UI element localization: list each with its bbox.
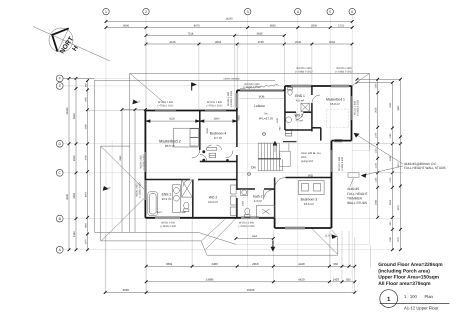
grid line 3 vertical bbox=[247, 15, 249, 268]
roof outline bottom-right fascia bbox=[236, 243, 369, 245]
exterior wall corner-window north bbox=[237, 89, 285, 91]
top overall dimension 14260 bbox=[106, 21, 352, 23]
svg-text:4: 4 bbox=[297, 10, 299, 14]
roof hip bottom-right 45 bbox=[311, 228, 337, 254]
basin WD2 upper bbox=[286, 117, 292, 123]
grid bubble B bbox=[56, 215, 63, 222]
leader trimmer bbox=[350, 179, 354, 187]
svg-text:2510: 2510 bbox=[156, 211, 162, 214]
grid line D horizontal bbox=[64, 143, 353, 145]
roof hip bottom-left 45 bbox=[101, 197, 145, 241]
shower ENS2 bbox=[182, 180, 193, 197]
svg-text:3830: 3830 bbox=[270, 24, 277, 27]
grid bubble D bbox=[56, 140, 63, 147]
closet double doors bbox=[207, 145, 212, 150]
exterior wall jog bath2 bbox=[274, 218, 276, 228]
interior wall ENS1 west bbox=[284, 90, 286, 130]
title marker line bbox=[380, 303, 450, 305]
exterior wall south ENS2/WD2 bbox=[145, 217, 274, 219]
roof right edge return bbox=[353, 150, 370, 152]
svg-text:1720: 1720 bbox=[338, 24, 345, 27]
grid line 4 vertical bbox=[297, 15, 299, 268]
svg-text:6: 6 bbox=[351, 10, 353, 14]
svg-text:4135: 4135 bbox=[169, 118, 175, 121]
grid line 2 vertical bbox=[145, 15, 147, 293]
roof gutter step diagonal bbox=[201, 241, 207, 255]
roof outline right edge upper bbox=[368, 73, 370, 150]
svg-text:W05: W05 bbox=[301, 156, 307, 159]
exterior wall south Bedroom3 bbox=[275, 227, 332, 229]
svg-text:20.5 m²: 20.5 m² bbox=[165, 144, 175, 148]
bed Masterbed2 bbox=[174, 128, 200, 147]
shower ENS1 bbox=[301, 103, 309, 111]
interior wall landing bbox=[312, 127, 321, 129]
right dim chain 2 bbox=[391, 82, 393, 249]
svg-text:1180: 1180 bbox=[389, 133, 392, 139]
grid line A horizontal bbox=[64, 249, 402, 251]
door ENS2 bbox=[183, 180, 190, 187]
svg-text:Plan: Plan bbox=[425, 294, 434, 299]
svg-text:3090: 3090 bbox=[123, 288, 130, 292]
interior wall hall west bbox=[236, 111, 238, 148]
grid line F horizontal bbox=[64, 77, 131, 79]
top dimension row grid spacings bbox=[106, 27, 352, 29]
svg-text:1120: 1120 bbox=[375, 148, 378, 154]
left dim chain outer bbox=[68, 78, 70, 249]
svg-text:Masterbed 1: Masterbed 1 bbox=[326, 97, 345, 101]
svg-text:Bedroom 3: Bedroom 3 bbox=[301, 198, 318, 202]
svg-text:1130: 1130 bbox=[375, 162, 378, 168]
svg-text:FFL=27.07: FFL=27.07 bbox=[259, 116, 274, 120]
grid bubble 2 bbox=[143, 8, 149, 14]
roof hip at step to wall bbox=[202, 220, 225, 241]
svg-text:2850: 2850 bbox=[252, 262, 259, 266]
svg-text:4.0 m²: 4.0 m² bbox=[296, 99, 304, 103]
shower bath2 bbox=[257, 205, 275, 217]
exterior wall jog at grid3 bbox=[236, 90, 238, 110]
roof gutter bottom-left edge bbox=[101, 240, 201, 242]
door ENS1 bbox=[296, 112, 303, 119]
roof gutter right corner bbox=[337, 237, 339, 256]
interior dim 2800 bbox=[200, 120, 236, 122]
svg-text:VDB: VDB bbox=[259, 95, 265, 99]
grid line 5 vertical bbox=[329, 15, 331, 284]
smoke detector hall lower bbox=[247, 172, 250, 175]
svg-text:4420: 4420 bbox=[298, 277, 305, 281]
north arrow hypotenuse bbox=[58, 28, 69, 51]
svg-text:10.9 m²: 10.9 m² bbox=[162, 197, 172, 201]
svg-text:FULL HEIGHT: FULL HEIGHT bbox=[347, 192, 368, 196]
svg-text:1340: 1340 bbox=[389, 236, 392, 242]
roof hip top-right bbox=[352, 73, 370, 86]
exterior wall top Masterbed2/Bedroom4 bbox=[145, 110, 237, 112]
window W1206 top wall right bbox=[205, 109, 226, 112]
corner window glazing bbox=[240, 89, 283, 92]
svg-text:Upper Floor Area=150sqm: Upper Floor Area=150sqm bbox=[378, 275, 439, 281]
svg-text:4450: 4450 bbox=[397, 105, 400, 111]
svg-text:(+300) 0 800: (+300) 0 800 bbox=[341, 157, 344, 171]
svg-text:15.8 m²: 15.8 m² bbox=[330, 102, 340, 106]
svg-text:2: 2 bbox=[145, 10, 147, 14]
svg-text:1140: 1140 bbox=[375, 177, 378, 183]
grid line 1 vertical bbox=[105, 15, 107, 293]
interior wall WD2upper south bbox=[285, 129, 312, 131]
top dim extension lines bbox=[145, 29, 147, 111]
svg-text:1375: 1375 bbox=[375, 132, 378, 138]
left dim chain middle bbox=[75, 78, 77, 249]
svg-text:3: 3 bbox=[247, 10, 249, 14]
svg-text:5620: 5620 bbox=[73, 113, 76, 119]
stair upper flight treads bbox=[257, 143, 259, 159]
svg-text:2800: 2800 bbox=[214, 118, 220, 121]
svg-text:3130: 3130 bbox=[206, 128, 209, 134]
svg-text:(+1500) 0 900: (+1500) 0 900 bbox=[139, 182, 142, 198]
svg-text:2780: 2780 bbox=[84, 154, 87, 160]
interior wall Masterbed2 south bbox=[145, 179, 190, 181]
svg-text:Riser 188 BL 16+: Riser 188 BL 16+ bbox=[301, 152, 322, 155]
right dim chain 3 bbox=[399, 79, 401, 250]
svg-text:FULL HEIGHT WALL STUDS: FULL HEIGHT WALL STUDS bbox=[404, 166, 446, 170]
roof outline lower-left top edge bbox=[95, 79, 276, 81]
svg-text:3604: 3604 bbox=[166, 262, 173, 266]
eave offset dim bbox=[122, 109, 145, 111]
svg-text:3815: 3815 bbox=[256, 32, 263, 35]
svg-text:1060: 1060 bbox=[375, 83, 378, 89]
svg-text:950: 950 bbox=[333, 262, 338, 266]
svg-text:(+1500) 0 900: (+1500) 0 900 bbox=[239, 225, 256, 228]
window W204 west wall lower bbox=[144, 180, 147, 200]
svg-text:Masterbed 2: Masterbed 2 bbox=[159, 138, 181, 143]
window W203 south wall bbox=[155, 217, 180, 220]
grid bubble F bbox=[56, 75, 63, 82]
top dimension row 7118/3815 bbox=[146, 35, 284, 37]
grid bubble E bbox=[56, 83, 63, 90]
svg-text:10045: 10045 bbox=[66, 107, 69, 115]
extension west wall top bbox=[89, 110, 146, 112]
svg-text:2375: 2375 bbox=[397, 204, 400, 210]
window W1211 east wall Masterbed1 bbox=[350, 96, 353, 120]
grid line E horizontal bbox=[64, 85, 286, 87]
svg-text:(including Porch area): (including Porch area) bbox=[378, 268, 430, 274]
svg-text:2040: 2040 bbox=[295, 41, 302, 44]
stair landing bbox=[279, 151, 290, 166]
interior wall Masterbed2/Bedroom4 bbox=[199, 111, 201, 151]
grid line 6 vertical bbox=[351, 15, 353, 293]
exterior wall jog ENS1 bbox=[284, 86, 286, 90]
interior wall bath2 north bbox=[237, 188, 255, 190]
svg-text:5: 5 bbox=[329, 10, 331, 14]
stair lower flight treads bbox=[257, 159, 259, 171]
svg-text:d140x45@300mm C/C: d140x45@300mm C/C bbox=[404, 162, 437, 166]
grid bubble 1 bbox=[103, 8, 109, 14]
door Bedroom3 bbox=[275, 178, 285, 188]
closet Bedroom4 bbox=[207, 148, 217, 151]
vanity ENS2 bbox=[173, 185, 181, 213]
svg-text:1300: 1300 bbox=[242, 200, 245, 206]
top dimension row 4135/2804/3735/2040/3004 bbox=[146, 43, 352, 45]
left dim chain inner bbox=[87, 81, 89, 250]
svg-text:4060: 4060 bbox=[238, 115, 241, 121]
bed Masterbed1 dashed bbox=[327, 109, 349, 128]
interior wall ENS2/WD2 divider bbox=[192, 180, 194, 218]
svg-text:14085: 14085 bbox=[206, 277, 214, 281]
bottom dim row 3 bbox=[105, 292, 355, 294]
svg-text:Ground Floor Area=228sqm: Ground Floor Area=228sqm bbox=[378, 262, 443, 268]
svg-text:bath 2: bath 2 bbox=[253, 194, 263, 198]
window W1202 hall west wall bbox=[236, 93, 239, 108]
svg-text:16290: 16290 bbox=[247, 288, 255, 292]
trimmer stud highlight 2 bbox=[348, 173, 359, 177]
stair east thin line bbox=[288, 143, 290, 151]
svg-text:3320: 3320 bbox=[389, 102, 392, 108]
title marker circle bbox=[380, 290, 398, 308]
north arrow chevron bbox=[52, 28, 69, 51]
svg-text:4555: 4555 bbox=[84, 191, 87, 197]
grid bubble 3 bbox=[245, 8, 251, 14]
svg-text:Leisure: Leisure bbox=[254, 104, 265, 108]
exterior wall west bbox=[144, 111, 146, 218]
window W1206 Masterbed1 bbox=[331, 85, 349, 88]
svg-text:(+1500) 0 900: (+1500) 0 900 bbox=[160, 225, 177, 228]
bottom dim row 1 bbox=[146, 265, 355, 267]
roof hip from south wall corner bbox=[206, 219, 237, 250]
grid row ticks on right chains bbox=[353, 143, 404, 145]
cabinets WD2 upper bbox=[286, 131, 292, 134]
roof ridge vertical at step bbox=[129, 73, 131, 232]
svg-text:lin: lin bbox=[265, 112, 268, 116]
revision cloud corner window bbox=[240, 85, 279, 90]
exterior wall south Masterbed1 return bbox=[332, 140, 352, 142]
leader to wall studs 1 bbox=[355, 134, 404, 165]
svg-text:ENS 2: ENS 2 bbox=[162, 192, 172, 196]
window W1206 top wall left bbox=[155, 109, 176, 112]
svg-text:4135: 4135 bbox=[169, 41, 176, 44]
svg-text:8070: 8070 bbox=[194, 24, 201, 27]
roof outline upper edge bbox=[130, 72, 370, 74]
svg-text:4940: 4940 bbox=[119, 155, 122, 161]
svg-text:3385: 3385 bbox=[84, 123, 87, 129]
svg-text:2505: 2505 bbox=[375, 107, 378, 113]
grid line C horizontal bbox=[64, 172, 379, 174]
window south Bedroom3 wall bbox=[285, 227, 305, 230]
svg-text:DN: DN bbox=[251, 165, 256, 169]
svg-text:4565: 4565 bbox=[73, 192, 76, 198]
svg-text:(+1500) 0 900: (+1500) 0 900 bbox=[142, 154, 145, 170]
grid bubble 4 bbox=[295, 8, 301, 14]
right dim chain 1 bbox=[377, 79, 379, 217]
grid bubble C bbox=[56, 169, 63, 176]
svg-text:going=250: going=250 bbox=[301, 160, 314, 163]
window W1206 ENS1 bbox=[291, 85, 311, 88]
interior wall Masterbed1 west bbox=[311, 86, 313, 95]
svg-text:1240: 1240 bbox=[276, 117, 279, 123]
window W1212 east wall Bedroom3 bbox=[330, 150, 333, 172]
stair rail break bbox=[258, 158, 281, 160]
svg-text:2860: 2860 bbox=[252, 235, 258, 238]
svg-text:(+2040) 0 2022: (+2040) 0 2022 bbox=[295, 70, 313, 73]
interior wall hall south / Bedroom3 north bbox=[286, 177, 332, 179]
svg-text:(+750) 0 2022: (+750) 0 2022 bbox=[158, 104, 175, 107]
grid bubble 5 bbox=[327, 8, 333, 14]
trimmer stud highlight 1 bbox=[335, 139, 343, 142]
svg-text:3004: 3004 bbox=[329, 41, 336, 44]
svg-text:A1-12 Upper Floor: A1-12 Upper Floor bbox=[404, 306, 439, 311]
stair direction arrow bbox=[274, 142, 277, 145]
north arrow diagonal line bbox=[33, 27, 110, 62]
exterior wall north ENS1/Masterbed1 bbox=[285, 85, 352, 87]
section flag bottom bbox=[272, 241, 274, 250]
interior wall Bedroom4 closet bottom bbox=[200, 161, 237, 163]
roof plate line bbox=[111, 140, 113, 232]
svg-text:(+2040) 0 2022: (+2040) 0 2022 bbox=[335, 70, 353, 73]
wardrobe WD2 lower bbox=[231, 185, 237, 194]
svg-text:1: 1 bbox=[105, 10, 107, 14]
interior dim 4135 bbox=[147, 120, 200, 122]
svg-text:8.7 m²: 8.7 m² bbox=[214, 136, 222, 140]
porch roof corner west bbox=[101, 145, 131, 147]
interior wall bath2/Bedroom3 divider bbox=[274, 178, 276, 218]
toilet bath2 bbox=[245, 208, 250, 214]
svg-text:8030: 8030 bbox=[66, 193, 69, 199]
roof hip top-left bbox=[130, 73, 164, 102]
svg-text:3140: 3140 bbox=[73, 231, 76, 237]
svg-text:1130: 1130 bbox=[389, 177, 392, 183]
grid bubble A bbox=[56, 246, 63, 253]
door Masterbed1 bbox=[312, 95, 320, 103]
svg-text:3090: 3090 bbox=[123, 24, 130, 27]
svg-text:2440: 2440 bbox=[375, 199, 378, 205]
svg-text:4140x45: 4140x45 bbox=[347, 187, 359, 191]
svg-text:1 : 100: 1 : 100 bbox=[404, 294, 417, 299]
svg-text:1980: 1980 bbox=[181, 211, 187, 214]
svg-text:<7 m²: <7 m² bbox=[295, 118, 303, 122]
grid bubble 6 bbox=[349, 8, 355, 14]
roof outline right edge lower faint bbox=[368, 151, 370, 245]
svg-text:2590: 2590 bbox=[311, 24, 318, 27]
roof outline bottom-left fascia bbox=[95, 231, 199, 233]
bathtub ENS2 bbox=[148, 192, 158, 216]
svg-text:F: F bbox=[59, 77, 61, 81]
north arrow circle bbox=[49, 28, 73, 52]
toilet ENS2 bbox=[184, 202, 189, 209]
roof outline left edge bbox=[94, 80, 96, 232]
svg-text:825: 825 bbox=[346, 277, 351, 281]
svg-text:15.6 m²: 15.6 m² bbox=[304, 202, 314, 206]
svg-text:4240: 4240 bbox=[298, 262, 305, 266]
left dim connector F bbox=[64, 77, 95, 79]
vanity bath2 bbox=[241, 189, 248, 195]
right dim connector top bbox=[357, 78, 400, 80]
window W1201 south wall bbox=[241, 217, 259, 220]
svg-text:2804: 2804 bbox=[215, 41, 222, 44]
window W204 west wall upper bbox=[144, 152, 147, 172]
grid line B horizontal bbox=[64, 218, 402, 220]
door Masterbed2 bbox=[192, 150, 200, 158]
svg-text:(+2040) 0 2022: (+2040) 0 2022 bbox=[230, 90, 233, 107]
exterior wall east Bedroom3 bbox=[331, 141, 333, 228]
door Bedroom4 bbox=[200, 155, 207, 162]
leader to wall studs 2 bbox=[362, 166, 403, 176]
closet door hall side bbox=[226, 151, 234, 159]
svg-text:2400: 2400 bbox=[212, 262, 219, 266]
svg-text:(+750) 0 2022: (+750) 0 2022 bbox=[207, 104, 224, 107]
svg-text:3735: 3735 bbox=[258, 41, 265, 44]
toilet ENS1 bbox=[288, 89, 292, 95]
svg-text:14260: 14260 bbox=[225, 18, 233, 21]
svg-text:1660: 1660 bbox=[84, 222, 87, 228]
bottom dim extension lines bbox=[104, 234, 106, 294]
svg-text:Bedroom 4: Bedroom 4 bbox=[210, 132, 227, 136]
svg-text:(+1000) 0 2022: (+1000) 0 2022 bbox=[356, 99, 359, 116]
door bath2 bbox=[264, 190, 274, 200]
roof valley diagonal to wall bbox=[101, 146, 146, 190]
svg-text:1575: 1575 bbox=[84, 239, 87, 245]
svg-text:corner window: corner window bbox=[223, 77, 239, 80]
svg-text:1403: 1403 bbox=[333, 277, 340, 281]
svg-text:All Floor area=379sqm: All Floor area=379sqm bbox=[378, 281, 431, 287]
svg-text:WD: WD bbox=[308, 173, 314, 177]
svg-text:2980: 2980 bbox=[389, 199, 392, 205]
svg-text:2920: 2920 bbox=[73, 155, 76, 161]
svg-text:WD 2: WD 2 bbox=[209, 195, 218, 199]
svg-text:10.9 m²: 10.9 m² bbox=[208, 200, 218, 204]
stair wall landing north bbox=[283, 141, 297, 143]
svg-text:6.4 m²: 6.4 m² bbox=[254, 199, 262, 203]
dim 2860 below bath2 bbox=[236, 238, 273, 240]
wardrobe Bedroom3 bbox=[299, 181, 325, 195]
svg-text:WALL STUDS: WALL STUDS bbox=[347, 201, 367, 205]
exterior wall east Masterbed1 bbox=[351, 86, 353, 141]
section flag marker bbox=[191, 83, 193, 91]
svg-text:12.0°: 12.0° bbox=[324, 235, 330, 238]
roof gutter bottom-mid edge bbox=[207, 254, 338, 256]
svg-text:WD 2: WD 2 bbox=[294, 114, 303, 118]
svg-text:ENS 1: ENS 1 bbox=[295, 94, 305, 98]
svg-text:TRIMMER: TRIMMER bbox=[347, 196, 363, 200]
svg-text:7118: 7118 bbox=[187, 32, 193, 35]
svg-text:1985: 1985 bbox=[84, 97, 87, 103]
interior wall ENS1/WD2upper divider bbox=[285, 111, 296, 113]
roof fascia step diagonal bbox=[198, 232, 236, 244]
smoke detector hall upper bbox=[262, 132, 265, 135]
bottom dim row 2 bbox=[146, 281, 355, 283]
svg-text:1575: 1575 bbox=[397, 236, 400, 242]
